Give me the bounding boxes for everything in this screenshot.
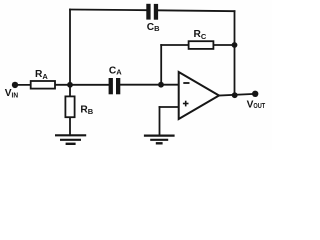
svg-text:RC: RC — [194, 29, 207, 41]
wire top right segment — [158, 9, 235, 12]
resistor RA — [31, 81, 55, 89]
wire Ra to Ca — [55, 84, 109, 86]
node A junction — [67, 82, 73, 88]
wire top left segment — [70, 9, 147, 12]
wire right vertical — [234, 11, 236, 95]
svg-text:RA: RA — [35, 69, 48, 81]
wire Vin to Ra — [15, 84, 31, 86]
ground under plus input — [144, 136, 175, 144]
op-amp minus pin — [183, 82, 189, 84]
wire feedback left vertical — [69, 10, 71, 85]
op-amp U1 — [179, 72, 219, 119]
wire Ca to opamp — [120, 84, 178, 86]
resistor RB — [65, 96, 74, 117]
wire Rc right — [213, 44, 234, 46]
wire node A to Rb — [69, 85, 71, 97]
wire plus to ground — [159, 107, 161, 135]
svg-text:VIN: VIN — [5, 88, 18, 99]
op-amp plus pin — [183, 101, 189, 107]
node Vout terminal — [252, 91, 258, 97]
wire Rc left — [161, 44, 189, 46]
wire output — [219, 94, 255, 96]
ground under RB — [55, 135, 86, 144]
svg-text:VOUT: VOUT — [247, 99, 266, 110]
svg-text:RB: RB — [80, 104, 93, 116]
capacitor CA — [109, 78, 121, 94]
node D junction — [232, 92, 238, 98]
resistor RC — [189, 41, 214, 49]
svg-text:CA: CA — [109, 65, 122, 76]
wire Rb to ground — [69, 117, 71, 135]
wire Rc left vertical — [160, 45, 162, 85]
wire plus input — [160, 106, 179, 108]
node C junction — [232, 42, 238, 48]
node Vin terminal — [12, 82, 18, 88]
capacitor CB — [146, 4, 158, 20]
node B junction — [158, 82, 164, 88]
svg-text:CB: CB — [147, 22, 160, 33]
